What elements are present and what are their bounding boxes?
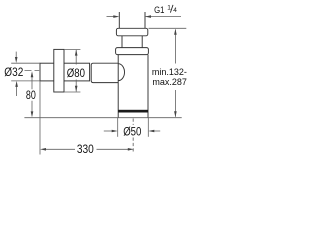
wire: O50 left arrow line bbox=[104, 130, 113, 132]
svg-text:Ø50: Ø50 bbox=[123, 127, 141, 139]
node: arrowhead 330 left bbox=[40, 148, 46, 151]
wire: min-max dimension line upper bbox=[174, 30, 176, 64]
node: flange under thread bbox=[116, 28, 147, 36]
node: arrowhead 80 top bbox=[31, 71, 34, 77]
svg-text:Ø80: Ø80 bbox=[67, 68, 85, 80]
svg-text:max.287: max.287 bbox=[152, 77, 187, 87]
wire: 330 extension line at wall bbox=[39, 81, 41, 155]
node: telescopic outer tube bbox=[91, 63, 118, 82]
wire: G1 1/4 threaded pipe right edge bbox=[144, 12, 146, 28]
wire: bottom baseline bbox=[24, 117, 181, 119]
wire: O80 extension top bbox=[64, 48, 80, 50]
node: inlet pipe from wall bbox=[40, 63, 90, 81]
wire: extension line top right bbox=[149, 27, 187, 29]
wire: min-max dimension line lower bbox=[174, 90, 176, 117]
svg-text:Ø32: Ø32 bbox=[4, 67, 23, 79]
svg-text:G1: G1 bbox=[154, 5, 164, 15]
svg-text:min.132-: min.132- bbox=[152, 67, 187, 77]
node: arrowhead 80 bottom bbox=[31, 111, 34, 117]
node: arrowhead O80 top bbox=[75, 50, 78, 56]
wire: O50 extension left bbox=[117, 118, 119, 137]
wire: neck left bbox=[121, 36, 123, 48]
wire: O80 dimension line bbox=[75, 50, 77, 65]
node: top nut bbox=[116, 48, 149, 55]
node: arrowhead O50 right bbox=[148, 130, 154, 133]
wire: 80 dimension line upper bbox=[31, 77, 33, 89]
node: arrowhead min-max bottom bbox=[174, 111, 177, 117]
wire: neck right bbox=[141, 36, 143, 48]
wire: 80 dimension line lower bbox=[31, 101, 33, 112]
node: arrowhead min-max top bbox=[174, 29, 177, 35]
node: arrowhead O80 bottom bbox=[75, 86, 78, 92]
node: pipe cap arc inside body bbox=[118, 64, 124, 81]
node: cup bottom thick band bbox=[118, 110, 148, 113]
node: arrowhead O50 left bbox=[112, 130, 118, 133]
wire: O80 extension bottom bbox=[64, 91, 80, 93]
node: arrowhead O32 bottom bbox=[15, 81, 18, 87]
wire: O50 right arrow line bbox=[154, 130, 161, 132]
wire: O32 top arrow tail bbox=[15, 52, 17, 58]
node: arrowhead O32 top bbox=[15, 57, 18, 63]
wire: G1 1/4 threaded pipe left edge bbox=[118, 12, 120, 28]
node: arrowhead 330 right bbox=[128, 148, 134, 151]
wire: G dimension left arrow line bbox=[107, 16, 115, 18]
wire: 330 dimension line right bbox=[97, 148, 129, 150]
wire: O32 extension top bbox=[11, 62, 40, 64]
wire: G dimension right leader line bbox=[145, 16, 181, 18]
node: arrowhead G left bbox=[113, 15, 119, 18]
wire: pipe axis centerline bbox=[25, 70, 41, 72]
svg-text:330: 330 bbox=[77, 144, 94, 156]
wire: O32 extension bottom bbox=[11, 80, 40, 82]
node: arrowhead G right bbox=[145, 15, 151, 18]
svg-text:80: 80 bbox=[26, 90, 36, 102]
wire: O32 bottom arrow tail bbox=[16, 87, 18, 97]
svg-text:4: 4 bbox=[173, 7, 177, 14]
node: wall flange bbox=[54, 49, 64, 92]
svg-text:1: 1 bbox=[167, 5, 171, 12]
node: trap body bbox=[117, 55, 119, 118]
wire: 330 dimension line left bbox=[46, 148, 76, 150]
wire: O50 extension right bbox=[147, 118, 149, 137]
wire: cup vertical centerline dashed upper bbox=[132, 119, 134, 126]
wire: cup vertical centerline dashed lower bbox=[132, 138, 134, 153]
